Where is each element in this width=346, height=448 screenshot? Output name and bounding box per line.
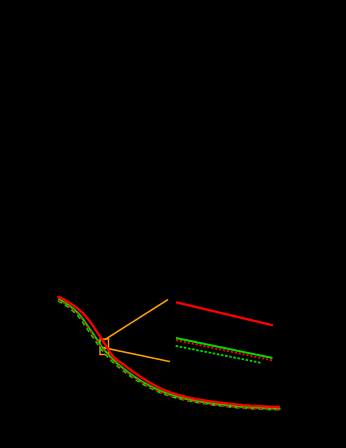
main curve: red solid (58, 297, 281, 408)
inset: green dashed line (176, 346, 262, 363)
inset: red dashed line (176, 340, 273, 360)
inset: red solid line (176, 302, 273, 325)
inset: green solid line (176, 338, 273, 358)
main curve: green solid (58, 299, 281, 409)
lower connector line (102, 347, 170, 361)
main curve: red dashed (overlapping green solid) (58, 300, 281, 410)
zoom box (orange rectangle) (100, 339, 109, 355)
upper connector line (105, 300, 169, 340)
main curve: green dashed (lower bound, below bundle) (58, 301, 281, 410)
